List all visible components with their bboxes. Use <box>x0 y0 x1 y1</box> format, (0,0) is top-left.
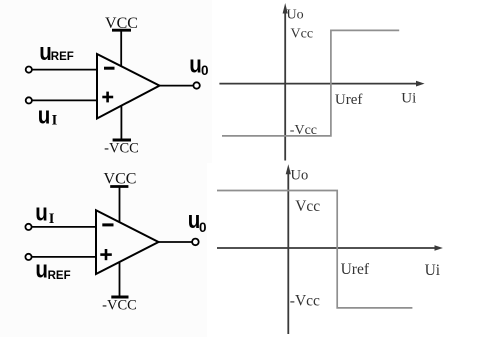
label uO (U2 output) <box>188 206 207 235</box>
label uI (U2 inverting input) <box>35 199 55 227</box>
terminal node uREF input (U2) <box>25 254 31 260</box>
wire U1 inverting input <box>32 69 97 71</box>
wire U2 output <box>159 241 193 243</box>
-VCC supply symbol (U2 negative rail) <box>111 262 128 297</box>
VCC supply symbol (U1 positive rail) <box>112 30 131 66</box>
wire U1 non-inverting input <box>32 99 97 101</box>
svg-text:VCC: VCC <box>104 170 137 187</box>
graph 2 y-axis arrow <box>286 164 291 174</box>
svg-text:0: 0 <box>201 63 209 78</box>
svg-text:I: I <box>52 113 58 129</box>
svg-text:Uref: Uref <box>341 261 370 278</box>
svg-text:0: 0 <box>199 220 207 235</box>
graph 2 y-axis <box>287 169 289 334</box>
svg-text:REF: REF <box>51 51 74 63</box>
label uREF (U1 inverting input) <box>39 38 74 65</box>
graph 2 x-axis <box>217 247 436 249</box>
label uO (U1 output) <box>189 51 208 78</box>
graph 1 transfer curve <box>222 30 399 135</box>
label uREF (U2 non-inverting input) <box>35 256 70 283</box>
terminal node uI input <box>26 97 32 103</box>
svg-text:Uo: Uo <box>291 168 309 184</box>
svg-text:REF: REF <box>48 270 71 282</box>
-VCC supply symbol (U1 negative rail) <box>113 106 131 140</box>
svg-text:-VCC: -VCC <box>102 298 137 314</box>
svg-text:u: u <box>189 51 202 78</box>
svg-text:-VCC: -VCC <box>104 141 139 157</box>
svg-text:VCC: VCC <box>105 15 138 32</box>
svg-text:Uref: Uref <box>335 92 362 108</box>
svg-text:u: u <box>35 199 48 226</box>
wire U2 non-inverting input <box>31 256 96 258</box>
svg-text:Ui: Ui <box>401 90 416 106</box>
svg-text:Ui: Ui <box>425 262 441 279</box>
svg-text:Vcc: Vcc <box>295 198 320 215</box>
svg-text:u: u <box>35 256 48 283</box>
wire U2 inverting input <box>31 226 96 228</box>
svg-text:u: u <box>38 102 51 129</box>
graph 2 x-axis arrow <box>435 245 443 251</box>
svg-text:I: I <box>49 211 55 227</box>
svg-text:-Vcc: -Vcc <box>290 292 320 309</box>
terminal node uO output <box>193 82 199 88</box>
graph 1 y-axis arrow <box>283 3 288 14</box>
op-amp U2 inverting pin mark (-) <box>102 223 113 226</box>
svg-text:Vcc: Vcc <box>291 27 314 42</box>
graph 1 x-axis arrow <box>416 81 425 87</box>
terminal node uREF input <box>26 67 32 73</box>
terminal node uI input (U2) <box>25 224 31 230</box>
op-amp U2 <box>96 210 159 274</box>
wire U1 output <box>160 85 194 87</box>
terminal node uO output (U2) <box>192 239 199 246</box>
op-amp U1 <box>97 54 160 119</box>
graph 2 transfer curve <box>217 191 412 308</box>
svg-text:-Vcc: -Vcc <box>290 123 317 138</box>
svg-text:Uo: Uo <box>287 7 304 22</box>
graph 1 x-axis <box>219 83 417 85</box>
op-amp U1 non-inverting pin mark (+) <box>102 92 113 103</box>
graph 1 y-axis <box>284 9 286 161</box>
VCC supply symbol (U2 positive rail) <box>110 187 128 223</box>
label uI (U1 non-inverting input) <box>38 102 58 129</box>
op-amp U1 inverting pin mark (-) <box>104 67 115 70</box>
op-amp U2 non-inverting pin mark (+) <box>100 249 112 260</box>
